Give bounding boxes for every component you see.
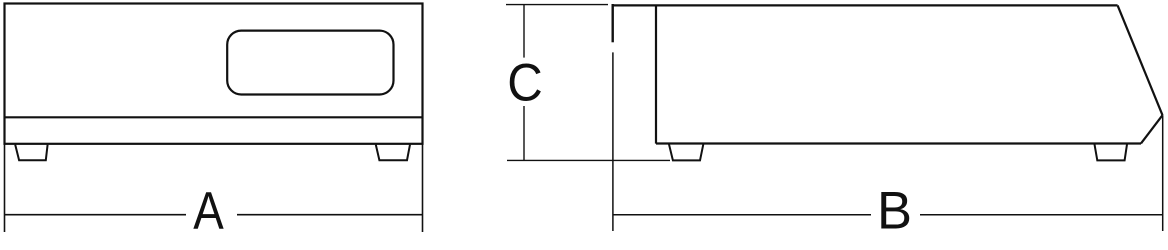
svg-text:B: B: [877, 181, 912, 240]
svg-text:A: A: [193, 181, 224, 240]
svg-text:C: C: [507, 53, 543, 112]
